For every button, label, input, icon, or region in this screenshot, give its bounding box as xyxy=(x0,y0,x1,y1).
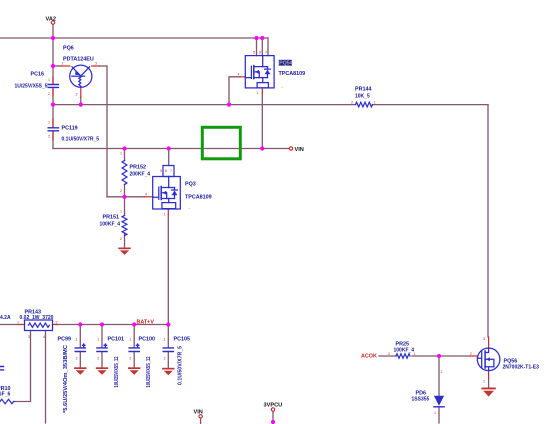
wire VIN rail y=148.5 xyxy=(53,148,289,150)
svg-text:PQ3: PQ3 xyxy=(185,182,196,188)
capacitor PC105 xyxy=(163,348,173,352)
node PC16 bottom junction xyxy=(51,103,55,107)
svg-text:4: 4 xyxy=(145,193,147,197)
svg-text:100KF_4: 100KF_4 xyxy=(100,222,121,228)
node 3VPCU port circle xyxy=(271,408,274,411)
svg-text:VIN: VIN xyxy=(194,410,203,416)
node PR152/PR151 gate junction xyxy=(122,195,126,199)
node PC100 junction xyxy=(132,322,136,326)
svg-text:6: 6 xyxy=(165,169,167,173)
svg-text:VIN: VIN xyxy=(295,147,304,153)
ground PQ56 xyxy=(481,388,495,397)
svg-text:1: 1 xyxy=(76,338,78,342)
svg-text:1: 1 xyxy=(62,62,64,66)
ground PR151 xyxy=(118,248,130,255)
svg-text:1: 1 xyxy=(48,121,50,125)
svg-text:*5.6U/25V/4Om_353B/MC: *5.6U/25V/4Om_353B/MC xyxy=(63,345,69,413)
svg-text:PR151: PR151 xyxy=(103,215,119,221)
svg-text:PC99: PC99 xyxy=(58,337,72,343)
wire PC99 drop xyxy=(79,325,81,368)
svg-text:1: 1 xyxy=(17,321,19,325)
svg-text:200KF_4: 200KF_4 xyxy=(130,172,151,178)
svg-text:ACOK: ACOK xyxy=(361,354,377,360)
svg-text:PDTA124EU: PDTA124EU xyxy=(63,57,94,63)
wire PQ54 top stub pins xyxy=(257,38,269,56)
wire PQ6 pin2 stub xyxy=(80,87,82,97)
resistor PR10 zigzag xyxy=(0,399,14,403)
svg-text:1: 1 xyxy=(120,210,122,214)
wire PQ56 source to ground xyxy=(488,378,490,388)
node PR152 top junction xyxy=(122,146,126,150)
svg-text:PC101: PC101 xyxy=(108,337,124,343)
wire PQ6 left pin xyxy=(53,65,61,67)
node PQ6 base junction xyxy=(51,64,55,68)
transistor PQ6 xyxy=(70,65,92,87)
svg-text:PR144: PR144 xyxy=(355,87,371,93)
resistor PR25 zigzag xyxy=(396,354,410,358)
node PQ54 gate junction xyxy=(227,103,231,107)
svg-text:1: 1 xyxy=(97,338,99,342)
wire PQ54 bottom pin to VIN rail xyxy=(261,94,263,149)
svg-text:2: 2 xyxy=(120,189,122,193)
wire PC16 pin stubs xyxy=(52,78,54,97)
svg-text:3VPCU: 3VPCU xyxy=(264,403,283,409)
svg-text:0GF_6: 0GF_6 xyxy=(0,392,11,398)
wire PR151 to ground xyxy=(124,233,126,248)
wire PR151 top stub xyxy=(124,197,126,216)
node PQ54 drain junction xyxy=(260,146,264,150)
wire VA2 vertical x=53 xyxy=(52,24,54,84)
svg-text:7: 7 xyxy=(170,169,172,173)
svg-text:VA2: VA2 xyxy=(46,17,56,23)
svg-text:0.1U/50V/X7R_5: 0.1U/50V/X7R_5 xyxy=(62,137,100,143)
svg-text:2: 2 xyxy=(470,352,472,356)
ground PC101 xyxy=(96,367,108,374)
wire PQ3 gate from x=107 xyxy=(107,196,145,198)
wire PR25 to PQ56 gate xyxy=(412,355,470,357)
svg-text:1: 1 xyxy=(164,213,166,217)
svg-text:PC100: PC100 xyxy=(139,337,155,343)
node probe green box xyxy=(202,127,240,159)
svg-text:2: 2 xyxy=(76,357,78,361)
node PQ3 drain junction xyxy=(167,146,171,150)
svg-text:2: 2 xyxy=(56,321,58,325)
wire PC119 pin stubs xyxy=(52,119,54,140)
node PQ6 collector junction xyxy=(79,103,83,107)
svg-text:1: 1 xyxy=(374,101,376,105)
wire PR143 pin4 drop xyxy=(45,331,47,424)
svg-text:BAT+V: BAT+V xyxy=(137,320,155,326)
resistor PR143 box xyxy=(25,320,53,331)
capacitor PC16 xyxy=(48,85,58,88)
svg-text:PC16: PC16 xyxy=(31,72,45,78)
svg-text:PC105: PC105 xyxy=(174,337,190,343)
wire BAT+V bus xyxy=(57,324,168,326)
svg-text:1: 1 xyxy=(48,78,50,82)
wire PQ6 pin1 stub xyxy=(61,65,70,67)
resistor PR152 zigzag xyxy=(122,161,127,185)
svg-text:5: 5 xyxy=(253,51,255,55)
wire PQ3 top pin xyxy=(168,149,170,166)
capacitor PC99 xyxy=(75,344,85,351)
wire PR152 bottom stub xyxy=(124,185,126,197)
wire PR143 pin stubs xyxy=(20,324,57,326)
svg-text:2: 2 xyxy=(97,357,99,361)
node VIN port circle right xyxy=(289,147,292,150)
wire vertical x=107 xyxy=(106,66,108,197)
wire gate-drive rail y=104.6 right of PR144 xyxy=(373,104,489,106)
svg-text:10K_5: 10K_5 xyxy=(355,94,370,100)
svg-text:1U/25V/X5S_5: 1U/25V/X5S_5 xyxy=(15,83,48,89)
wire PC100 drop xyxy=(133,325,135,368)
wire PQ56 drain pin stub xyxy=(488,337,490,348)
wire PC101 drop xyxy=(101,325,103,368)
svg-text:7: 7 xyxy=(265,51,267,55)
svg-text:1: 1 xyxy=(164,338,166,342)
svg-text:0.1U/50V/X7R_5: 0.1U/50V/X7R_5 xyxy=(177,346,183,385)
svg-text:2: 2 xyxy=(351,101,353,105)
mosfet PQ54 labels xyxy=(279,60,292,66)
svg-text:1SS355: 1SS355 xyxy=(412,397,430,403)
node VA2 junction xyxy=(51,36,55,40)
svg-text:10U/25V/X5S_12: 10U/25V/X5S_12 xyxy=(114,356,120,387)
capacitor clipped at left edge xyxy=(0,367,4,370)
svg-text:PR152: PR152 xyxy=(130,165,146,171)
wire top rail y=38 xyxy=(0,37,268,39)
wire ACOK to PR25 xyxy=(379,355,396,357)
wire vertical x=488 down right side xyxy=(487,105,489,337)
svg-text:2: 2 xyxy=(48,92,50,96)
wire PQ54 gate pin stub xyxy=(240,76,245,78)
node VA2 port circle xyxy=(51,21,54,24)
capacitor PC119 xyxy=(48,128,58,131)
wire PR143 pin3 bend to PR10 xyxy=(14,331,31,402)
node VIN port circle bottom xyxy=(199,415,202,418)
svg-text:1: 1 xyxy=(483,380,485,384)
wire PD6 anode drop xyxy=(438,356,440,396)
node PD6/PQ56 gate junction xyxy=(437,354,441,358)
node 3VPCU junction xyxy=(271,420,275,424)
svg-text:2: 2 xyxy=(48,135,50,139)
ground PC105 xyxy=(162,368,174,375)
wire gate-drive rail y=104.6 left of PR144 xyxy=(53,104,356,106)
svg-text:2: 2 xyxy=(388,352,390,356)
svg-text:0.02_1W_3720: 0.02_1W_3720 xyxy=(20,315,54,321)
wire PQ56 gate pin stub xyxy=(470,355,478,357)
svg-text:3: 3 xyxy=(95,62,97,66)
svg-text:3: 3 xyxy=(483,337,485,341)
wire PQ56 source pin stub xyxy=(488,371,490,378)
wire PQ6 collector drop xyxy=(80,97,82,105)
wire PQ54 source pin stub xyxy=(261,88,263,94)
svg-text:1: 1 xyxy=(120,152,122,156)
wire PC16 to PC119 xyxy=(52,88,54,127)
svg-text:2: 2 xyxy=(120,237,122,241)
wire PQ3 gate pin stub xyxy=(145,196,153,198)
svg-text:4.2A: 4.2A xyxy=(0,315,11,321)
resistor PR144 zigzag xyxy=(356,102,373,107)
node PC101 junction xyxy=(100,322,104,326)
capacitor PC101 xyxy=(97,344,107,351)
wire VIN bottom port xyxy=(200,418,202,424)
svg-text:1: 1 xyxy=(434,411,436,415)
svg-text:10U/25V/X5S_12: 10U/25V/X5S_12 xyxy=(146,356,152,387)
svg-text:3: 3 xyxy=(28,335,30,339)
mosfet PQ3 box xyxy=(153,166,181,210)
node PC105/PQ3 junction xyxy=(166,322,170,326)
svg-text:2: 2 xyxy=(129,357,131,361)
svg-text:4: 4 xyxy=(43,335,45,339)
wire 3VPCU port drop xyxy=(272,412,274,424)
svg-text:PC119: PC119 xyxy=(62,126,78,132)
wire PQ54 left pin bend xyxy=(229,77,240,105)
wire PD6 cathode drop xyxy=(438,408,440,424)
wire PQ6 pin3 stub xyxy=(92,65,99,67)
svg-text:1: 1 xyxy=(257,91,259,95)
svg-text:TPCA8109: TPCA8109 xyxy=(279,71,306,77)
svg-text:6: 6 xyxy=(259,51,261,55)
wire PR152 top stub xyxy=(124,149,126,161)
diode PD6 xyxy=(434,396,444,407)
svg-text:2N7002K-T1-E3: 2N7002K-T1-E3 xyxy=(503,365,540,371)
ground PC99 xyxy=(74,367,86,374)
svg-text:5: 5 xyxy=(160,169,162,173)
wire BAT+V left of PR143 xyxy=(0,324,20,326)
node PC99 junction xyxy=(78,322,82,326)
svg-text:2: 2 xyxy=(164,357,166,361)
wire PC119 to VIN rail xyxy=(52,131,54,148)
svg-text:PQ54: PQ54 xyxy=(279,61,292,67)
resistor PR151 zigzag xyxy=(122,216,127,236)
svg-text:2: 2 xyxy=(76,93,78,97)
svg-text:1: 1 xyxy=(129,338,131,342)
node PQ54 stub junction 1 xyxy=(254,36,258,40)
svg-text:100KF_4: 100KF_4 xyxy=(394,348,415,354)
mosfet PQ56 xyxy=(477,348,500,371)
capacitor PC100 xyxy=(129,344,139,351)
svg-text:2: 2 xyxy=(441,370,443,374)
svg-text:4: 4 xyxy=(238,73,240,77)
wire PQ3 source drop to BAT+V xyxy=(167,215,169,325)
wire PQ6 right pin to x=107 xyxy=(99,65,107,67)
svg-text:TPCA8109: TPCA8109 xyxy=(185,195,212,201)
ground PC100 xyxy=(128,367,140,374)
mosfet PQ54 box xyxy=(245,56,274,88)
wire PC105 drop xyxy=(167,325,169,369)
svg-text:1: 1 xyxy=(414,352,416,356)
wire PQ3 source pin stub xyxy=(167,209,169,215)
node PQ54 stub junction 2 xyxy=(260,36,264,40)
svg-text:PQ6: PQ6 xyxy=(63,46,74,52)
